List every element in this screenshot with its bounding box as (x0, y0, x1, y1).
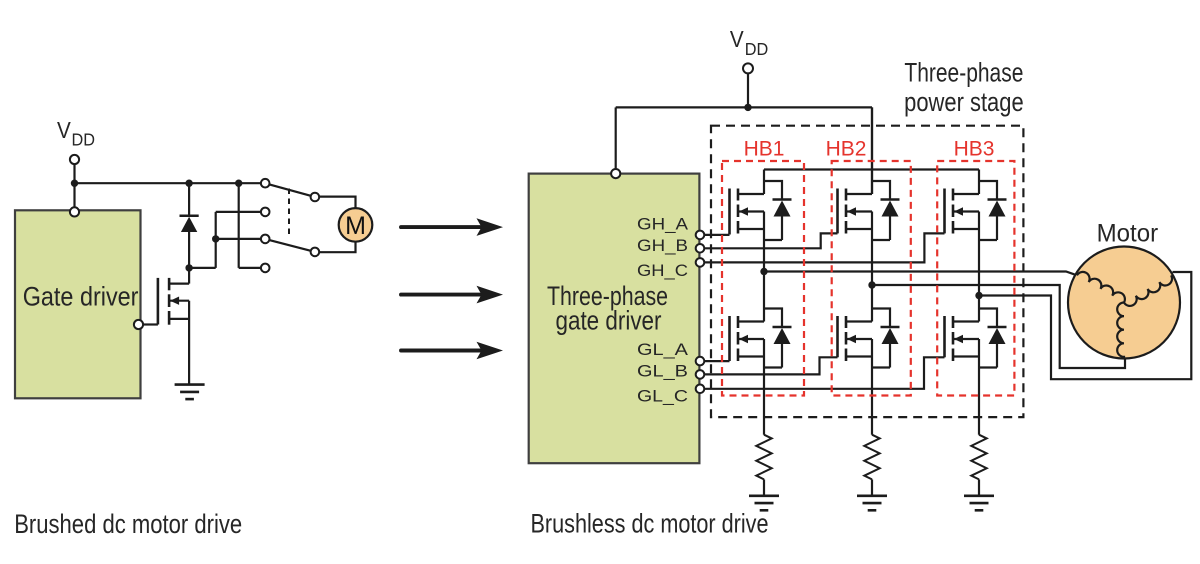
svg-text:GL_A: GL_A (637, 340, 689, 359)
svg-text:GH_A: GH_A (637, 214, 689, 233)
svg-text:Three-phase: Three-phase (904, 58, 1023, 88)
svg-text:Motor: Motor (1097, 220, 1159, 248)
svg-text:GH_C: GH_C (637, 261, 688, 280)
svg-text:HB1: HB1 (744, 138, 785, 161)
svg-text:M: M (345, 212, 366, 240)
svg-text:HB3: HB3 (954, 138, 995, 161)
svg-text:V: V (730, 26, 744, 52)
svg-text:GL_C: GL_C (637, 386, 688, 405)
svg-text:Gate driver: Gate driver (23, 282, 139, 312)
svg-text:Brushed dc motor drive: Brushed dc motor drive (14, 509, 242, 539)
svg-text:Brushless dc motor drive: Brushless dc motor drive (531, 509, 769, 539)
svg-text:DD: DD (72, 130, 96, 150)
svg-text:HB2: HB2 (826, 138, 867, 161)
svg-text:power stage: power stage (904, 87, 1024, 117)
svg-text:V: V (57, 117, 71, 143)
svg-text:GH_B: GH_B (637, 236, 688, 255)
svg-text:GL_B: GL_B (637, 362, 688, 381)
svg-text:DD: DD (745, 39, 769, 59)
svg-text:gate driver: gate driver (556, 306, 662, 336)
